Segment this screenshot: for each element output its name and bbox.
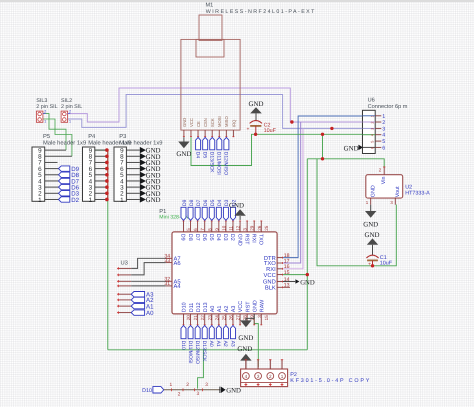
ground P1 pin14 xyxy=(283,279,315,286)
junction P4 pin 7 xyxy=(105,161,109,165)
svg-text:GND: GND xyxy=(236,234,242,246)
wire U2 Vout to U6 pin4 riser (green) xyxy=(317,159,396,266)
wire VCC rail to D10 link (green) xyxy=(198,350,204,389)
regulator U2 body xyxy=(366,175,403,198)
svg-text:GND: GND xyxy=(229,203,244,210)
svg-text:Male header 1x9: Male header 1x9 xyxy=(43,139,86,146)
junction P4 pin 3 xyxy=(105,185,109,189)
svg-text:1: 1 xyxy=(120,197,124,204)
svg-text:4: 4 xyxy=(370,134,374,136)
header P5 pin 2 xyxy=(45,192,59,194)
wire U6 pin3 branch to P1 RXI (violet) xyxy=(283,128,303,268)
svg-text:GND: GND xyxy=(237,346,252,353)
svg-text:RXI: RXI xyxy=(250,234,256,243)
header P3 reference xyxy=(119,133,126,140)
header P5 pin 7 xyxy=(45,161,58,163)
junction U6 pin3 net xyxy=(330,127,333,130)
regulator U2 reference xyxy=(405,184,412,190)
svg-text:A6: A6 xyxy=(174,260,181,267)
svg-text:D13/SCK: D13/SCK xyxy=(201,341,207,363)
IC P1 BLK stub xyxy=(283,286,290,288)
header P3 pin 2 with ground xyxy=(126,190,160,198)
svg-text:D5: D5 xyxy=(210,199,216,206)
node D7 flag on P5 xyxy=(59,178,80,185)
svg-text:BLK: BLK xyxy=(265,286,276,292)
svg-text:P5: P5 xyxy=(43,134,50,140)
svg-text:D2: D2 xyxy=(71,197,79,204)
IC P1 bottom pin D12 xyxy=(196,302,205,325)
node D3 flag on P5 xyxy=(59,191,80,198)
svg-text:Vin: Vin xyxy=(381,176,387,184)
svg-text:GND: GND xyxy=(300,279,315,286)
junction P1 VCC pin15 xyxy=(306,273,309,276)
IC P1 bottom pin GND xyxy=(252,300,261,325)
svg-text:Male header 1x9: Male header 1x9 xyxy=(119,139,162,146)
IC P1 left pin A6 xyxy=(164,258,180,267)
header P5 pin 8 xyxy=(45,155,72,157)
module M1 pin MOSI xyxy=(217,116,222,137)
wire U6 pin2 branch to P1 TXO (violet) xyxy=(283,122,301,263)
svg-text:D11/MOSI: D11/MOSI xyxy=(187,341,193,364)
svg-text:2: 2 xyxy=(44,110,46,114)
IC P1 right pin GND xyxy=(263,277,290,286)
svg-text:A4: A4 xyxy=(174,284,182,290)
capacitor C1 xyxy=(366,255,392,268)
IC U3 pin 5 xyxy=(117,293,131,296)
header P5 pin 5 xyxy=(45,174,59,176)
svg-text:A0: A0 xyxy=(210,306,216,313)
wire VCC vertical to P1 VCC pin (green) xyxy=(306,159,308,350)
IC P1 left pin A7 xyxy=(164,254,180,263)
svg-text:6: 6 xyxy=(370,147,374,149)
IC U3 pin 7 xyxy=(117,305,131,308)
svg-text:4: 4 xyxy=(382,133,385,139)
header P4 reference xyxy=(88,134,96,140)
IC U3 reference xyxy=(121,259,128,266)
IC P1 right pin VCC xyxy=(264,270,290,279)
header P4 pin 5 xyxy=(95,174,107,176)
node D9 flag on P5 xyxy=(59,166,80,173)
module M1 body outline xyxy=(181,39,240,130)
wire D10 to ground link xyxy=(164,389,221,391)
wire U6 pin1 to P1 DTR (blue) xyxy=(283,116,363,258)
svg-text:WIRELESS-NRF24L01-PA-EXT: WIRELESS-NRF24L01-PA-EXT xyxy=(206,9,316,15)
IC P1 value Mini 328 xyxy=(159,215,188,221)
regulator U2 pin1 GND xyxy=(366,198,371,205)
svg-text:Connector 6p m: Connector 6p m xyxy=(368,104,408,110)
svg-text:2: 2 xyxy=(178,392,181,398)
link pins ticks xyxy=(172,388,203,391)
svg-text:D12: D12 xyxy=(196,302,202,312)
junction C1 on rail xyxy=(371,264,374,267)
node A3 flag below P1 xyxy=(229,326,235,347)
node D2 flag above P1 xyxy=(230,199,237,220)
svg-text:D10: D10 xyxy=(180,341,186,350)
connector U6 value Connector 6p m xyxy=(368,104,408,110)
IC P1 right pin RXI xyxy=(266,264,290,273)
svg-text:2 pin SIL: 2 pin SIL xyxy=(61,104,82,110)
svg-text:D4: D4 xyxy=(215,234,221,241)
IC P1 right pin TXO xyxy=(264,258,290,267)
svg-text:2 pin SIL: 2 pin SIL xyxy=(36,104,57,110)
svg-text:SCK: SCK xyxy=(210,118,215,127)
IC P1 reference xyxy=(159,209,166,215)
IC P1 bottom pin D11 xyxy=(189,303,198,326)
header P4 pin 2 xyxy=(95,192,107,194)
svg-text:GND: GND xyxy=(182,118,187,127)
svg-text:GND: GND xyxy=(146,197,161,204)
svg-text:1: 1 xyxy=(89,197,93,204)
svg-text:D6: D6 xyxy=(201,234,207,241)
junction P4 pin 1 xyxy=(105,198,109,202)
IC P1 right pin DTR xyxy=(264,253,290,262)
window top border xyxy=(0,0,474,2)
svg-text:1: 1 xyxy=(382,114,385,120)
IC P1 top pin GND xyxy=(236,221,247,246)
svg-text:D2: D2 xyxy=(229,234,235,241)
svg-text:GND: GND xyxy=(249,101,264,108)
capacitor C2 xyxy=(246,121,276,135)
module M1 pin CE xyxy=(196,121,201,137)
IC P1 bottom pin D13 xyxy=(203,302,212,325)
header P3 value Male header 1x9 xyxy=(119,139,162,146)
IC P1 top pin RXI xyxy=(250,221,261,243)
svg-text:GND: GND xyxy=(176,151,191,158)
IC P1 bottom pin RAW xyxy=(259,299,268,325)
svg-text:U6: U6 xyxy=(368,98,375,104)
header P5 pin 1 xyxy=(45,198,59,200)
header P3 pin 5 with ground xyxy=(126,172,160,180)
IC P1 top pin D7 xyxy=(194,221,205,241)
svg-text:15: 15 xyxy=(264,315,269,321)
node D8 flag on P5 xyxy=(59,172,80,179)
module M1 pin GND xyxy=(182,118,187,138)
svg-text:VCC: VCC xyxy=(189,118,194,127)
module M1 value WIRELESS-NRF24L01-PA-EXT xyxy=(206,9,316,15)
svg-text:CSN: CSN xyxy=(203,118,208,127)
IC P1 top pin D2 xyxy=(229,221,240,241)
junction C2 on VCC rail xyxy=(254,133,257,136)
svg-text:D12/MISO: D12/MISO xyxy=(223,152,229,175)
svg-text:D5: D5 xyxy=(201,152,207,159)
svg-text:10uF: 10uF xyxy=(264,128,277,134)
connector SIL2 value 2 pin SIL xyxy=(61,104,82,110)
svg-text:5: 5 xyxy=(382,139,385,145)
node A1 flag on U3 xyxy=(131,303,154,310)
module M1 inner box xyxy=(196,39,224,57)
junction VCC riser xyxy=(321,133,324,136)
node D12/MISO flag on nRF xyxy=(223,137,229,175)
svg-text:D10: D10 xyxy=(182,302,188,312)
regulator U2 pin3 Vout xyxy=(390,198,395,205)
svg-text:1: 1 xyxy=(170,382,173,388)
module M1 pin SCK xyxy=(210,118,215,137)
header P5 value Male header 1x9 xyxy=(43,139,86,146)
junction P4 pin 4 xyxy=(105,179,109,183)
header P4 pin 7 xyxy=(95,161,107,163)
header P4 pin 1 xyxy=(95,198,107,200)
svg-text:1: 1 xyxy=(44,119,46,123)
svg-text:IRQ: IRQ xyxy=(231,119,236,127)
svg-text:P2: P2 xyxy=(290,372,297,378)
svg-text:6: 6 xyxy=(382,145,385,151)
IC P1 top pin RST xyxy=(243,221,254,246)
svg-text:3: 3 xyxy=(390,200,393,205)
connector U6 reference xyxy=(368,98,375,104)
node D5 flag on nRF xyxy=(201,137,207,158)
svg-text:RAW: RAW xyxy=(259,299,265,312)
junction P4 pin 6 xyxy=(105,167,109,171)
svg-text:A1: A1 xyxy=(215,341,221,347)
wire SIL3 pin1 to P5 pin8 (green) xyxy=(43,119,72,156)
svg-text:2: 2 xyxy=(370,121,374,123)
connector P2 reference xyxy=(290,372,297,378)
svg-text:D5: D5 xyxy=(208,234,214,241)
module M1 pin VCC xyxy=(189,118,194,137)
wire VCC net nRF to U6 pin4 (green) xyxy=(191,134,363,165)
node A3 flag on U3 xyxy=(131,292,154,299)
connector P2 pin 2 xyxy=(269,359,271,369)
node D2 flag on P5 xyxy=(59,197,80,204)
node D13/SCK flag below P1 xyxy=(201,326,207,363)
wire net SIL2-A to U6 pin2 (violet) xyxy=(68,88,363,122)
svg-text:D11/MOSI: D11/MOSI xyxy=(216,152,222,175)
svg-text:CE: CE xyxy=(196,121,201,127)
IC U3 pin 3 xyxy=(117,280,131,283)
svg-text:D13: D13 xyxy=(203,302,209,312)
IC P1 top pin D9 xyxy=(180,221,191,241)
node A0 flag on U3 xyxy=(131,310,154,317)
node D13/SCK flag on nRF xyxy=(209,137,215,173)
svg-text:VCC: VCC xyxy=(264,272,276,279)
header P3 pin 8 with ground xyxy=(126,153,160,161)
connector SIL3 reference xyxy=(36,98,47,104)
header P3 pin 9 with ground xyxy=(126,147,160,155)
wire net SIL2-B to U6 pin3 (violet) xyxy=(68,95,363,129)
svg-text:D8: D8 xyxy=(187,234,193,241)
IC P1 top pin D8 xyxy=(187,221,198,241)
IC P1 top pin D5 xyxy=(208,221,219,241)
node D4 flag above P1 xyxy=(216,199,223,220)
node D7 flag above P1 xyxy=(195,199,202,220)
svg-text:A2: A2 xyxy=(222,341,228,347)
junction P4 pin 8 xyxy=(105,154,109,158)
node A1 flag below P1 xyxy=(215,326,221,347)
module M1 antenna outline xyxy=(199,15,222,40)
svg-text:TXO: TXO xyxy=(257,234,263,245)
wire VCC branch to regulator input (green) xyxy=(307,134,384,167)
IC U3 pin 1 xyxy=(117,267,131,270)
svg-text:2: 2 xyxy=(269,374,272,379)
connector P2 body xyxy=(241,369,288,387)
header P4 pin 4 xyxy=(95,180,107,182)
connector U6 pin 3 xyxy=(363,126,386,132)
module M1 pin MISO xyxy=(224,116,229,138)
header P4 pin 3 xyxy=(95,186,107,188)
ground C1 xyxy=(365,232,380,255)
ground D10 link xyxy=(220,387,241,395)
node A2 flag on U3 xyxy=(131,297,154,304)
svg-text:GND: GND xyxy=(365,232,380,239)
svg-text:D13/SCK: D13/SCK xyxy=(209,152,215,174)
wire bottom VCC rail (green) xyxy=(108,349,307,351)
svg-text:15: 15 xyxy=(284,270,290,276)
svg-text:GND: GND xyxy=(370,185,376,197)
header P4 pin 8 xyxy=(95,155,107,157)
wire U3 pin1 to A7 xyxy=(131,258,166,268)
junction P4 pin 9 xyxy=(105,148,109,152)
wire P1 RAW to P2 pin3 (green) xyxy=(254,317,258,367)
connector P2 pin 1 xyxy=(281,359,283,369)
connector SIL2 body xyxy=(61,110,71,124)
module M1 reference xyxy=(206,3,214,9)
IC P1 body xyxy=(172,232,277,314)
header P4 body xyxy=(83,147,95,204)
IC P1 top pin D3 xyxy=(222,221,233,241)
header P4 pin 6 xyxy=(95,168,107,170)
header P5 pin 3 xyxy=(45,186,59,188)
svg-text:3: 3 xyxy=(197,391,200,397)
svg-text:2: 2 xyxy=(69,110,71,114)
wire U3 pin4 to A4 xyxy=(131,285,166,287)
svg-text:25: 25 xyxy=(264,225,269,231)
node D10 flag xyxy=(142,387,164,395)
IC U3 pin 4 xyxy=(117,285,131,288)
wire P4 bus red segment xyxy=(107,150,109,199)
node D10 flag below P1 xyxy=(180,326,186,350)
svg-text:D4: D4 xyxy=(217,199,223,206)
header P3 pin 7 with ground xyxy=(126,159,160,167)
svg-text:KF301-5.0-4P COPY: KF301-5.0-4P COPY xyxy=(290,378,371,384)
svg-text:3: 3 xyxy=(370,128,374,130)
IC P1 top pin D4 xyxy=(215,221,226,241)
svg-text:D9: D9 xyxy=(182,199,188,206)
svg-text:D7: D7 xyxy=(196,199,202,206)
connector SIL3 value 2 pin SIL xyxy=(36,104,57,110)
svg-text:RST: RST xyxy=(245,301,251,312)
IC P1 bottom pin A1 xyxy=(217,306,226,326)
wire U3 pin3 to A5 xyxy=(131,280,166,282)
svg-text:D4: D4 xyxy=(194,152,200,159)
wire U3 pin2 to A6 xyxy=(131,263,166,275)
IC P1 bottom pin VCC xyxy=(238,301,247,326)
svg-text:P3: P3 xyxy=(119,133,126,140)
svg-text:D7: D7 xyxy=(194,234,200,241)
header P3 pin 1 with ground xyxy=(126,196,160,204)
svg-text:A0: A0 xyxy=(208,341,214,347)
node A2 flag below P1 xyxy=(222,326,228,347)
node D3 flag above P1 xyxy=(223,199,230,220)
svg-text:4: 4 xyxy=(245,374,248,379)
IC P1 bottom pin RST xyxy=(245,301,254,326)
svg-text:M1: M1 xyxy=(206,3,214,9)
svg-text:3: 3 xyxy=(382,126,385,132)
header P4 value Male header 1x9 xyxy=(88,139,131,146)
node D6 flag above P1 xyxy=(202,199,209,220)
svg-text:GND: GND xyxy=(226,388,241,395)
svg-text:GND: GND xyxy=(238,335,253,342)
IC P1 bottom pin A3 xyxy=(231,306,240,326)
svg-text:3: 3 xyxy=(205,382,208,388)
header P3 body xyxy=(114,147,126,204)
connector U6 pin 5 xyxy=(370,139,385,145)
junction P4 pin 5 xyxy=(105,173,109,177)
connector P2 value KF301-5.0-4P COPY xyxy=(290,378,371,384)
IC U3 pin 2 xyxy=(117,274,131,277)
header P5 pin 9 xyxy=(45,149,66,151)
svg-text:3: 3 xyxy=(257,374,260,379)
IC P1 right pin BLK xyxy=(265,283,290,292)
header P5 pin 6 xyxy=(45,168,59,170)
svg-text:GND: GND xyxy=(344,146,359,153)
svg-text:U2: U2 xyxy=(405,184,412,190)
svg-text:D10: D10 xyxy=(142,388,152,394)
node D6 flag on P5 xyxy=(59,184,80,191)
svg-text:GND: GND xyxy=(252,300,258,312)
svg-text:Vout: Vout xyxy=(395,186,401,197)
ground P1 bottom GND pin xyxy=(238,314,254,342)
connector U6 pin 6 xyxy=(363,145,386,151)
node D5 flag above P1 xyxy=(209,199,216,220)
header P5 reference xyxy=(43,134,50,140)
svg-text:1: 1 xyxy=(38,197,42,204)
svg-text:A3: A3 xyxy=(229,341,235,347)
IC P1 bottom pin A2 xyxy=(224,306,233,326)
svg-text:A3: A3 xyxy=(231,306,237,313)
svg-text:A2: A2 xyxy=(224,306,230,313)
header P3 pin 6 with ground xyxy=(126,165,160,173)
svg-text:1: 1 xyxy=(366,200,369,205)
link pin numbers xyxy=(170,382,209,398)
wire P4 bus vertical (green) xyxy=(95,150,108,350)
node D9 flag above P1 xyxy=(181,199,188,220)
svg-text:VCC: VCC xyxy=(238,301,244,312)
ground U2 pin1 xyxy=(363,205,378,229)
node A0 flag below P1 xyxy=(208,326,214,347)
connector U6 pin 4 xyxy=(363,133,386,139)
svg-text:+: + xyxy=(368,261,371,267)
regulator U2 value HT7333-A xyxy=(405,191,430,197)
node D11/MOSI flag on nRF xyxy=(216,137,222,174)
svg-text:D3: D3 xyxy=(222,234,228,241)
node D11/MOSI flag below P1 xyxy=(187,326,193,364)
ground P2 pin4 xyxy=(237,346,252,369)
svg-text:1: 1 xyxy=(370,115,374,117)
svg-text:A0: A0 xyxy=(146,310,154,317)
svg-text:A1: A1 xyxy=(217,306,223,313)
connector SIL3 body xyxy=(36,110,46,124)
svg-text:D8: D8 xyxy=(189,199,195,206)
svg-text:1: 1 xyxy=(69,119,71,123)
IC P1 left pin A4 xyxy=(164,281,181,290)
junction P4 pin 2 xyxy=(105,191,109,195)
svg-text:RST: RST xyxy=(243,234,249,245)
connector SIL2 reference xyxy=(61,98,72,104)
svg-text:GND: GND xyxy=(363,222,378,229)
svg-text:D12/MISO: D12/MISO xyxy=(194,341,200,364)
header P4 pin 9 xyxy=(95,149,107,151)
ground U6 pin6 xyxy=(344,145,363,153)
IC U3 pin 6 xyxy=(117,299,131,302)
svg-text:1: 1 xyxy=(281,374,284,379)
connector P2 pin 3 xyxy=(257,359,259,369)
svg-text:5: 5 xyxy=(370,141,374,143)
connector P2 pin 4 xyxy=(245,359,247,369)
svg-text:HT7333-A: HT7333-A xyxy=(405,191,430,197)
connector U6 body xyxy=(363,110,376,153)
svg-text:10uF: 10uF xyxy=(380,261,393,267)
header P3 pin 3 with ground xyxy=(126,184,160,192)
